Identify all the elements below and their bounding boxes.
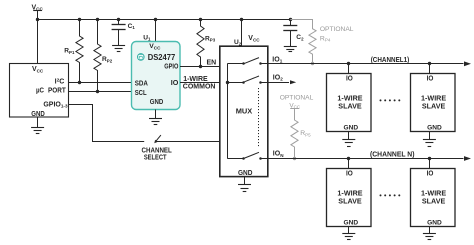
node VCC-RP1 junction xyxy=(78,18,81,21)
switch S2 (channel 2) xyxy=(227,76,267,84)
microcontroller uC block xyxy=(10,64,69,118)
svg-text:IO: IO xyxy=(427,170,434,177)
1-wire slave block (channel1 #2) xyxy=(411,74,456,132)
svg-text:SLAVE: SLAVE xyxy=(338,102,362,111)
1-wire slave block (channelN #1) xyxy=(327,169,372,227)
1-wire slave block (channel1 #1) xyxy=(327,74,372,132)
node RP3-EN junction xyxy=(199,65,202,68)
svg-text:GND: GND xyxy=(344,220,359,227)
ground (slaveN2) xyxy=(423,226,436,239)
switch S1 (channel 1) xyxy=(227,58,267,65)
svg-text:SLAVE: SLAVE xyxy=(422,102,446,111)
node slaveN1 IO junction xyxy=(347,157,350,160)
svg-text:(CHANNEL N): (CHANNEL N) xyxy=(370,152,415,159)
ground (uC) xyxy=(31,117,44,134)
svg-text:µC: µC xyxy=(36,88,44,95)
wire VCC to U1 xyxy=(155,19,157,42)
svg-text:MUX: MUX xyxy=(236,107,253,116)
svg-text:IO: IO xyxy=(346,75,353,82)
resistor RP3 (EN pullup) xyxy=(197,19,204,67)
mux U2 block xyxy=(220,46,268,176)
svg-text:OPTIONAL: OPTIONAL xyxy=(320,26,354,33)
wire SCL (uC I2C to DS2477) xyxy=(68,91,132,93)
ellipsis dots (channel1 slaves) xyxy=(380,99,401,101)
node VCC-U1 junction xyxy=(154,18,157,21)
svg-text:IO: IO xyxy=(171,80,179,87)
svg-text:GND: GND xyxy=(150,99,164,106)
svg-text:SDA: SDA xyxy=(135,80,148,87)
wire slaveN1 IO stub xyxy=(348,159,350,169)
wire VCC rail xyxy=(38,19,291,21)
switch SN (channel N) xyxy=(227,152,267,159)
wire IO2 stub xyxy=(268,82,289,84)
wire CHANNEL N bus xyxy=(268,158,464,160)
svg-text:GND: GND xyxy=(238,170,253,177)
node VCC-uC junction xyxy=(36,18,39,21)
svg-text:GND: GND xyxy=(31,111,45,118)
resistor RP2 (SCL pullup) xyxy=(94,19,101,92)
wire VCC to U2 xyxy=(241,19,243,46)
wire GPIO to EN xyxy=(180,66,220,68)
svg-text:SCL: SCL xyxy=(135,90,148,97)
node slave1 IO junction xyxy=(347,62,350,65)
svg-text:IO: IO xyxy=(427,75,434,82)
svg-text:SELECT: SELECT xyxy=(144,154,167,161)
resistor RP1 (SDA pullup) xyxy=(76,19,83,82)
svg-text:PORT: PORT xyxy=(48,88,66,95)
svg-text:(CHANNEL1): (CHANNEL1) xyxy=(371,57,410,64)
wire IO 1-WIRE COMMON xyxy=(180,82,227,84)
node slave2 IO junction xyxy=(428,62,431,65)
wire VCC to uC xyxy=(37,19,39,64)
svg-text:SLAVE: SLAVE xyxy=(338,197,362,206)
wire slave1 IO stub xyxy=(348,64,350,73)
svg-text:GPIO: GPIO xyxy=(164,64,179,71)
node VCC-C1 junction xyxy=(117,18,120,21)
ground (U2) xyxy=(238,177,251,192)
svg-text:1-WIRE: 1-WIRE xyxy=(183,76,208,83)
ground (C1) xyxy=(112,46,125,52)
svg-text:I2C: I2C xyxy=(55,78,65,86)
svg-text:GND: GND xyxy=(427,220,442,227)
ground (slaveN1) xyxy=(342,226,355,239)
svg-text:IO: IO xyxy=(346,170,353,177)
arrow CHANNEL N xyxy=(464,156,471,161)
node RP4-channel1 junction (gray) xyxy=(311,62,314,65)
resistor RP4 (optional pullup, gray) xyxy=(309,19,316,64)
capacitor C2 xyxy=(283,19,297,46)
svg-text:SLAVE: SLAVE xyxy=(422,197,446,206)
op-amp U1 DS2477 block xyxy=(132,42,181,110)
ground (U1) xyxy=(149,110,162,125)
select arrow mark (channel select) xyxy=(154,135,161,143)
node VCC-RP3 junction xyxy=(199,18,202,21)
node VCC-U2 junction xyxy=(240,18,243,21)
svg-text:CHANNEL: CHANNEL xyxy=(142,147,173,154)
wire common bus xyxy=(227,64,229,159)
wire ellipsis (more switches) xyxy=(258,88,260,147)
power flag VCC (optional, gray) xyxy=(289,102,301,109)
node RP5-channelN junction (gray) xyxy=(293,157,296,160)
1-wire slave block (channelN #2) xyxy=(411,169,456,227)
capacitor C1 xyxy=(112,19,126,46)
ground (C2) xyxy=(284,47,297,52)
label 1-WIRE COMMON xyxy=(183,76,216,91)
node common bus junction xyxy=(226,81,229,84)
arrow CHANNEL1 xyxy=(464,61,471,66)
resistor RP5 (optional pullup, gray) xyxy=(291,109,298,159)
wire SDA (uC I2C to DS2477) xyxy=(68,82,132,84)
svg-text:COMMON: COMMON xyxy=(183,84,216,91)
node slaveN2 IO junction xyxy=(428,157,431,160)
wire CHANNEL SELECT (uC GPIO to MUX, left segment) xyxy=(68,105,144,142)
wire CHANNEL1 bus xyxy=(268,63,464,65)
svg-text:OPTIONAL: OPTIONAL xyxy=(280,94,314,101)
svg-text:EN: EN xyxy=(206,60,216,67)
ground (slave2) xyxy=(423,131,436,146)
label CHANNEL SELECT xyxy=(142,147,173,161)
node VCC-C2 junction xyxy=(289,18,292,21)
power flag VCC (main supply) xyxy=(32,4,44,19)
node RP1-SDA junction xyxy=(78,81,81,84)
ground (slave1) xyxy=(342,131,355,146)
arrow IO2 xyxy=(290,80,296,84)
node VCC-RP2 junction xyxy=(96,18,99,21)
wire VCC to RP4 (optional, gray) xyxy=(290,19,312,21)
wire slave2 IO stub xyxy=(429,64,431,73)
svg-text:DS2477: DS2477 xyxy=(148,53,176,62)
ellipsis dots (channelN slaves) xyxy=(380,194,401,196)
wire slaveN2 IO stub xyxy=(429,159,431,169)
svg-text:GND: GND xyxy=(344,125,359,132)
svg-text:GND: GND xyxy=(427,125,442,132)
wire CHANNEL SELECT (right segment into MUX) xyxy=(157,141,220,143)
node RP2-SCL junction xyxy=(96,90,99,93)
